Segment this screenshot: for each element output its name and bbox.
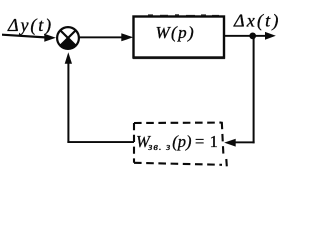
svg-text:Δy(t): Δy(t) xyxy=(7,15,53,36)
svg-text:Δx(t): Δx(t) xyxy=(233,11,280,32)
summing junction (comparator) xyxy=(57,27,79,49)
wire node down to feedback row xyxy=(253,36,255,143)
wire dashed block output to left xyxy=(67,141,134,143)
dashed block W_зв.з(p)=1 xyxy=(134,122,227,167)
wire feedback up into summing junction xyxy=(65,52,72,143)
wire feedback into dashed block (right arrow) xyxy=(224,139,254,147)
wire input arrow into summing junction xyxy=(2,34,56,42)
wire summing junction to W(p) block xyxy=(79,33,134,41)
node branch point on output xyxy=(249,33,256,40)
wire W(p) output to Δx(t) arrow xyxy=(224,32,276,40)
block W(p) scan-roughness on top and bottom edges xyxy=(133,14,225,59)
summing junction filled bottom sector xyxy=(60,38,75,49)
block W(p) xyxy=(134,17,225,58)
svg-text:Wзв. з(p)= 1: Wзв. з(p)= 1 xyxy=(136,132,219,153)
svg-text:W(p): W(p) xyxy=(156,23,196,42)
